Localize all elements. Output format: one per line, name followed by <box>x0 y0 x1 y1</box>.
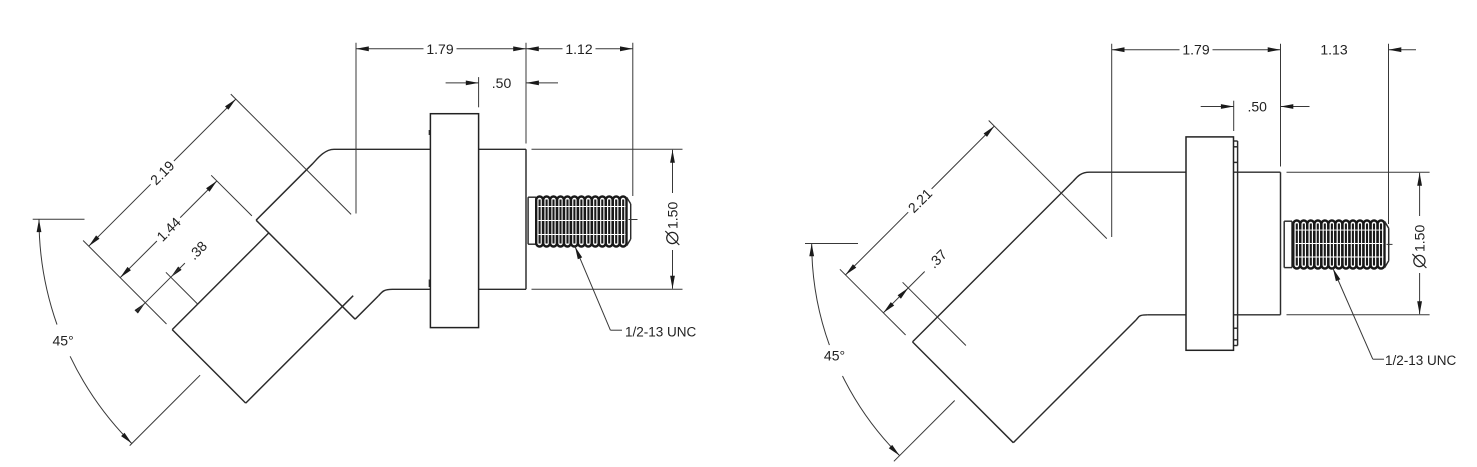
left view: flange disc <box>430 114 478 328</box>
left dim 1.79 extension lines <box>355 43 357 214</box>
right view: washer behind flange <box>1237 141 1239 346</box>
left dim 1.12 <box>526 48 563 50</box>
right dim .50 extension line <box>1233 101 1235 131</box>
left dim 2.19 elbow extension line <box>231 94 351 214</box>
left view: thread relief groove <box>527 197 529 244</box>
left dim 1.44 <box>120 241 157 278</box>
left view: thread end centerline stub <box>629 219 638 221</box>
left aligned dims shared end-face extension line <box>83 241 166 325</box>
left dim .50 <box>446 82 479 84</box>
svg-text:45°: 45° <box>824 347 845 363</box>
svg-text:1.50: 1.50 <box>1412 225 1428 252</box>
right view: angled body upper-left edge <box>913 181 1074 342</box>
right dim 2.21 <box>846 212 909 275</box>
left angular dim 45° axis extension <box>130 375 200 445</box>
svg-text:1.79: 1.79 <box>1182 42 1209 58</box>
left view: threaded stud 1/2-13 UNC crest pattern <box>536 197 543 247</box>
right dim Ø1.50 <box>1419 173 1421 216</box>
svg-text:.50: .50 <box>1247 99 1267 115</box>
right view: flange disc <box>1186 137 1234 350</box>
left view: body bottom line <box>393 288 527 290</box>
svg-text:1.13: 1.13 <box>1320 42 1347 58</box>
left dim Ø1.50 <box>672 150 674 193</box>
left view: narrow segment upper-left edge <box>172 233 269 330</box>
left view: shoulder line across angled body <box>256 220 355 319</box>
left view: washer sliver ticks on flange left edge <box>428 130 430 135</box>
right view: body top line <box>1090 171 1281 173</box>
svg-text:1/2-13 UNC: 1/2-13 UNC <box>1385 353 1457 368</box>
left dim .38 extension line <box>166 272 198 304</box>
right view: end face of angled body <box>913 342 1014 443</box>
svg-text:45°: 45° <box>53 333 74 349</box>
right angular dim 45° axis extension <box>894 401 955 462</box>
svg-text:1.50: 1.50 <box>665 202 681 229</box>
right leader 1/2-13 UNC <box>1333 269 1373 360</box>
right view: threaded stud 1/2-13 UNC crest pattern <box>1293 221 1300 269</box>
right view: angled body lower-right edge <box>1013 320 1136 443</box>
left dim 1.44 shoulder extension line <box>211 175 252 216</box>
right view: body right end face <box>1280 172 1282 315</box>
right view: thread end chamfer <box>1385 221 1389 228</box>
right view: body bottom line <box>1148 314 1281 316</box>
left dim 1.12 extension line <box>632 43 634 196</box>
left view: top corner runout <box>313 149 334 163</box>
left view: wide segment lower-right edge <box>355 296 378 319</box>
left view: narrow segment lower-right edge <box>246 296 354 403</box>
left angular dim 45° arc <box>39 219 57 324</box>
svg-text:1.12: 1.12 <box>565 41 592 57</box>
left view: end face of angled body <box>172 330 246 404</box>
left dim .38 <box>145 277 171 303</box>
right dim .37 (inside arrows) <box>883 288 908 313</box>
right dim 1.79 <box>1112 49 1180 51</box>
svg-text:1/2-13 UNC: 1/2-13 UNC <box>625 324 697 339</box>
right dim 2.21 end-face extension line <box>840 269 906 335</box>
left dim 1.79 <box>356 48 424 50</box>
right view: bottom corner runout <box>1136 315 1148 320</box>
left view: elbow body top line <box>334 148 526 150</box>
right dim .37 extension line <box>903 282 966 345</box>
right view: top corner runout <box>1073 172 1090 181</box>
left leader 1/2-13 UNC <box>575 247 610 331</box>
left view: thread end chamfer <box>627 197 631 204</box>
left view: body right end face <box>525 149 527 289</box>
right angular dim 45° arc <box>812 244 830 346</box>
right dim 1.79 extension lines <box>1111 44 1113 237</box>
right view: thread relief groove <box>1283 221 1285 267</box>
left dim Ø1.50 extension lines <box>532 148 683 150</box>
left view: bottom corner runout <box>378 289 392 296</box>
left dim .50 extension line <box>478 77 480 107</box>
svg-text:.50: .50 <box>492 75 512 91</box>
svg-text:1.79: 1.79 <box>426 41 453 57</box>
right dim 1.13 extension line <box>1388 44 1390 224</box>
left view: wide segment upper-left edge <box>256 163 313 220</box>
right dim .50 <box>1201 106 1234 108</box>
left dim 2.19 <box>89 184 151 246</box>
right angular dim 45° reference line <box>805 243 858 245</box>
right dim 2.21 elbow extension line <box>989 121 1107 239</box>
right dim Ø1.50 extension lines <box>1287 171 1430 173</box>
left angular dim 45° reference line <box>33 218 85 220</box>
right view: thread end centerline stub <box>1387 243 1393 245</box>
